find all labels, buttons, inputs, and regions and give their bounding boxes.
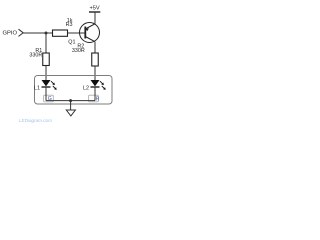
transistor Q1 emitter limb with PNP arrow (85, 24, 95, 29)
transistor Q1 collector limb (85, 37, 95, 42)
svg-text:G: G (48, 96, 52, 102)
wire R1 to LED L1 (45, 66, 47, 81)
junction dot node A (45, 32, 48, 35)
LED L2 emission arrow 2 (102, 86, 105, 89)
wire R3 to Q1 base (68, 32, 86, 34)
wire cathode rail (46, 100, 95, 102)
wire junction down to R1 (45, 33, 47, 53)
LED L2 triangle (91, 80, 100, 86)
LED L1 triangle (42, 80, 51, 86)
power +5V bar (89, 11, 100, 13)
LED L2 cathode bar (91, 86, 100, 88)
svg-text:GPIO: GPIO (3, 30, 18, 36)
svg-text:330R: 330R (72, 48, 85, 54)
wire L1 cathode down (45, 88, 47, 101)
transistor Q1 circle (80, 23, 100, 43)
wire junction to R3 (46, 32, 53, 34)
svg-text:L2: L2 (83, 86, 89, 92)
wire L2 cathode down (94, 88, 96, 101)
wire +5V to Q1 emitter (94, 12, 96, 24)
resistor R1 body (43, 53, 50, 66)
LED L1 cathode bar (42, 86, 51, 88)
wire Q1 collector to R2 (94, 42, 96, 53)
junction dot ground node (69, 99, 72, 102)
svg-text:R3: R3 (66, 22, 73, 28)
LED L1 emission arrow 2 (53, 86, 56, 89)
ground symbol (66, 110, 75, 116)
pin box R (89, 95, 99, 102)
LED L1 emission arrow 1 (51, 81, 54, 84)
svg-text:LEDiagram.com: LEDiagram.com (19, 118, 52, 123)
LED module box (35, 76, 113, 105)
svg-text:Q1: Q1 (68, 40, 75, 46)
resistor R3 body (53, 30, 68, 36)
resistor R2 body (92, 53, 99, 66)
pin box G (44, 95, 54, 102)
connector GPIO pin chevron (19, 29, 24, 36)
LED L2 emission arrow 1 (100, 81, 103, 84)
wire R2 to LED L2 (94, 66, 96, 80)
svg-text:L1: L1 (34, 86, 40, 92)
svg-text:330R: 330R (29, 52, 42, 58)
svg-text:+5V: +5V (89, 6, 99, 12)
svg-text:R: R (96, 96, 100, 102)
wire to ground (70, 101, 72, 110)
wire GPIO to junction (23, 32, 46, 34)
transistor Q1 base bar (84, 27, 86, 39)
